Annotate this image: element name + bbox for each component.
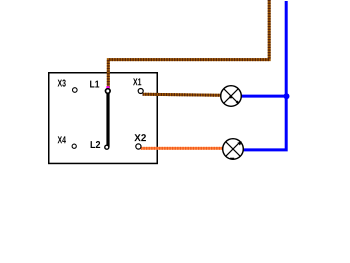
svg-text:L2: L2 (90, 140, 101, 151)
svg-text:L1: L1 (90, 79, 100, 90)
svg-text:X2: X2 (134, 133, 146, 144)
svg-text:X3: X3 (58, 78, 67, 89)
svg-text:X1: X1 (133, 77, 142, 88)
svg-text:X4: X4 (57, 135, 66, 146)
